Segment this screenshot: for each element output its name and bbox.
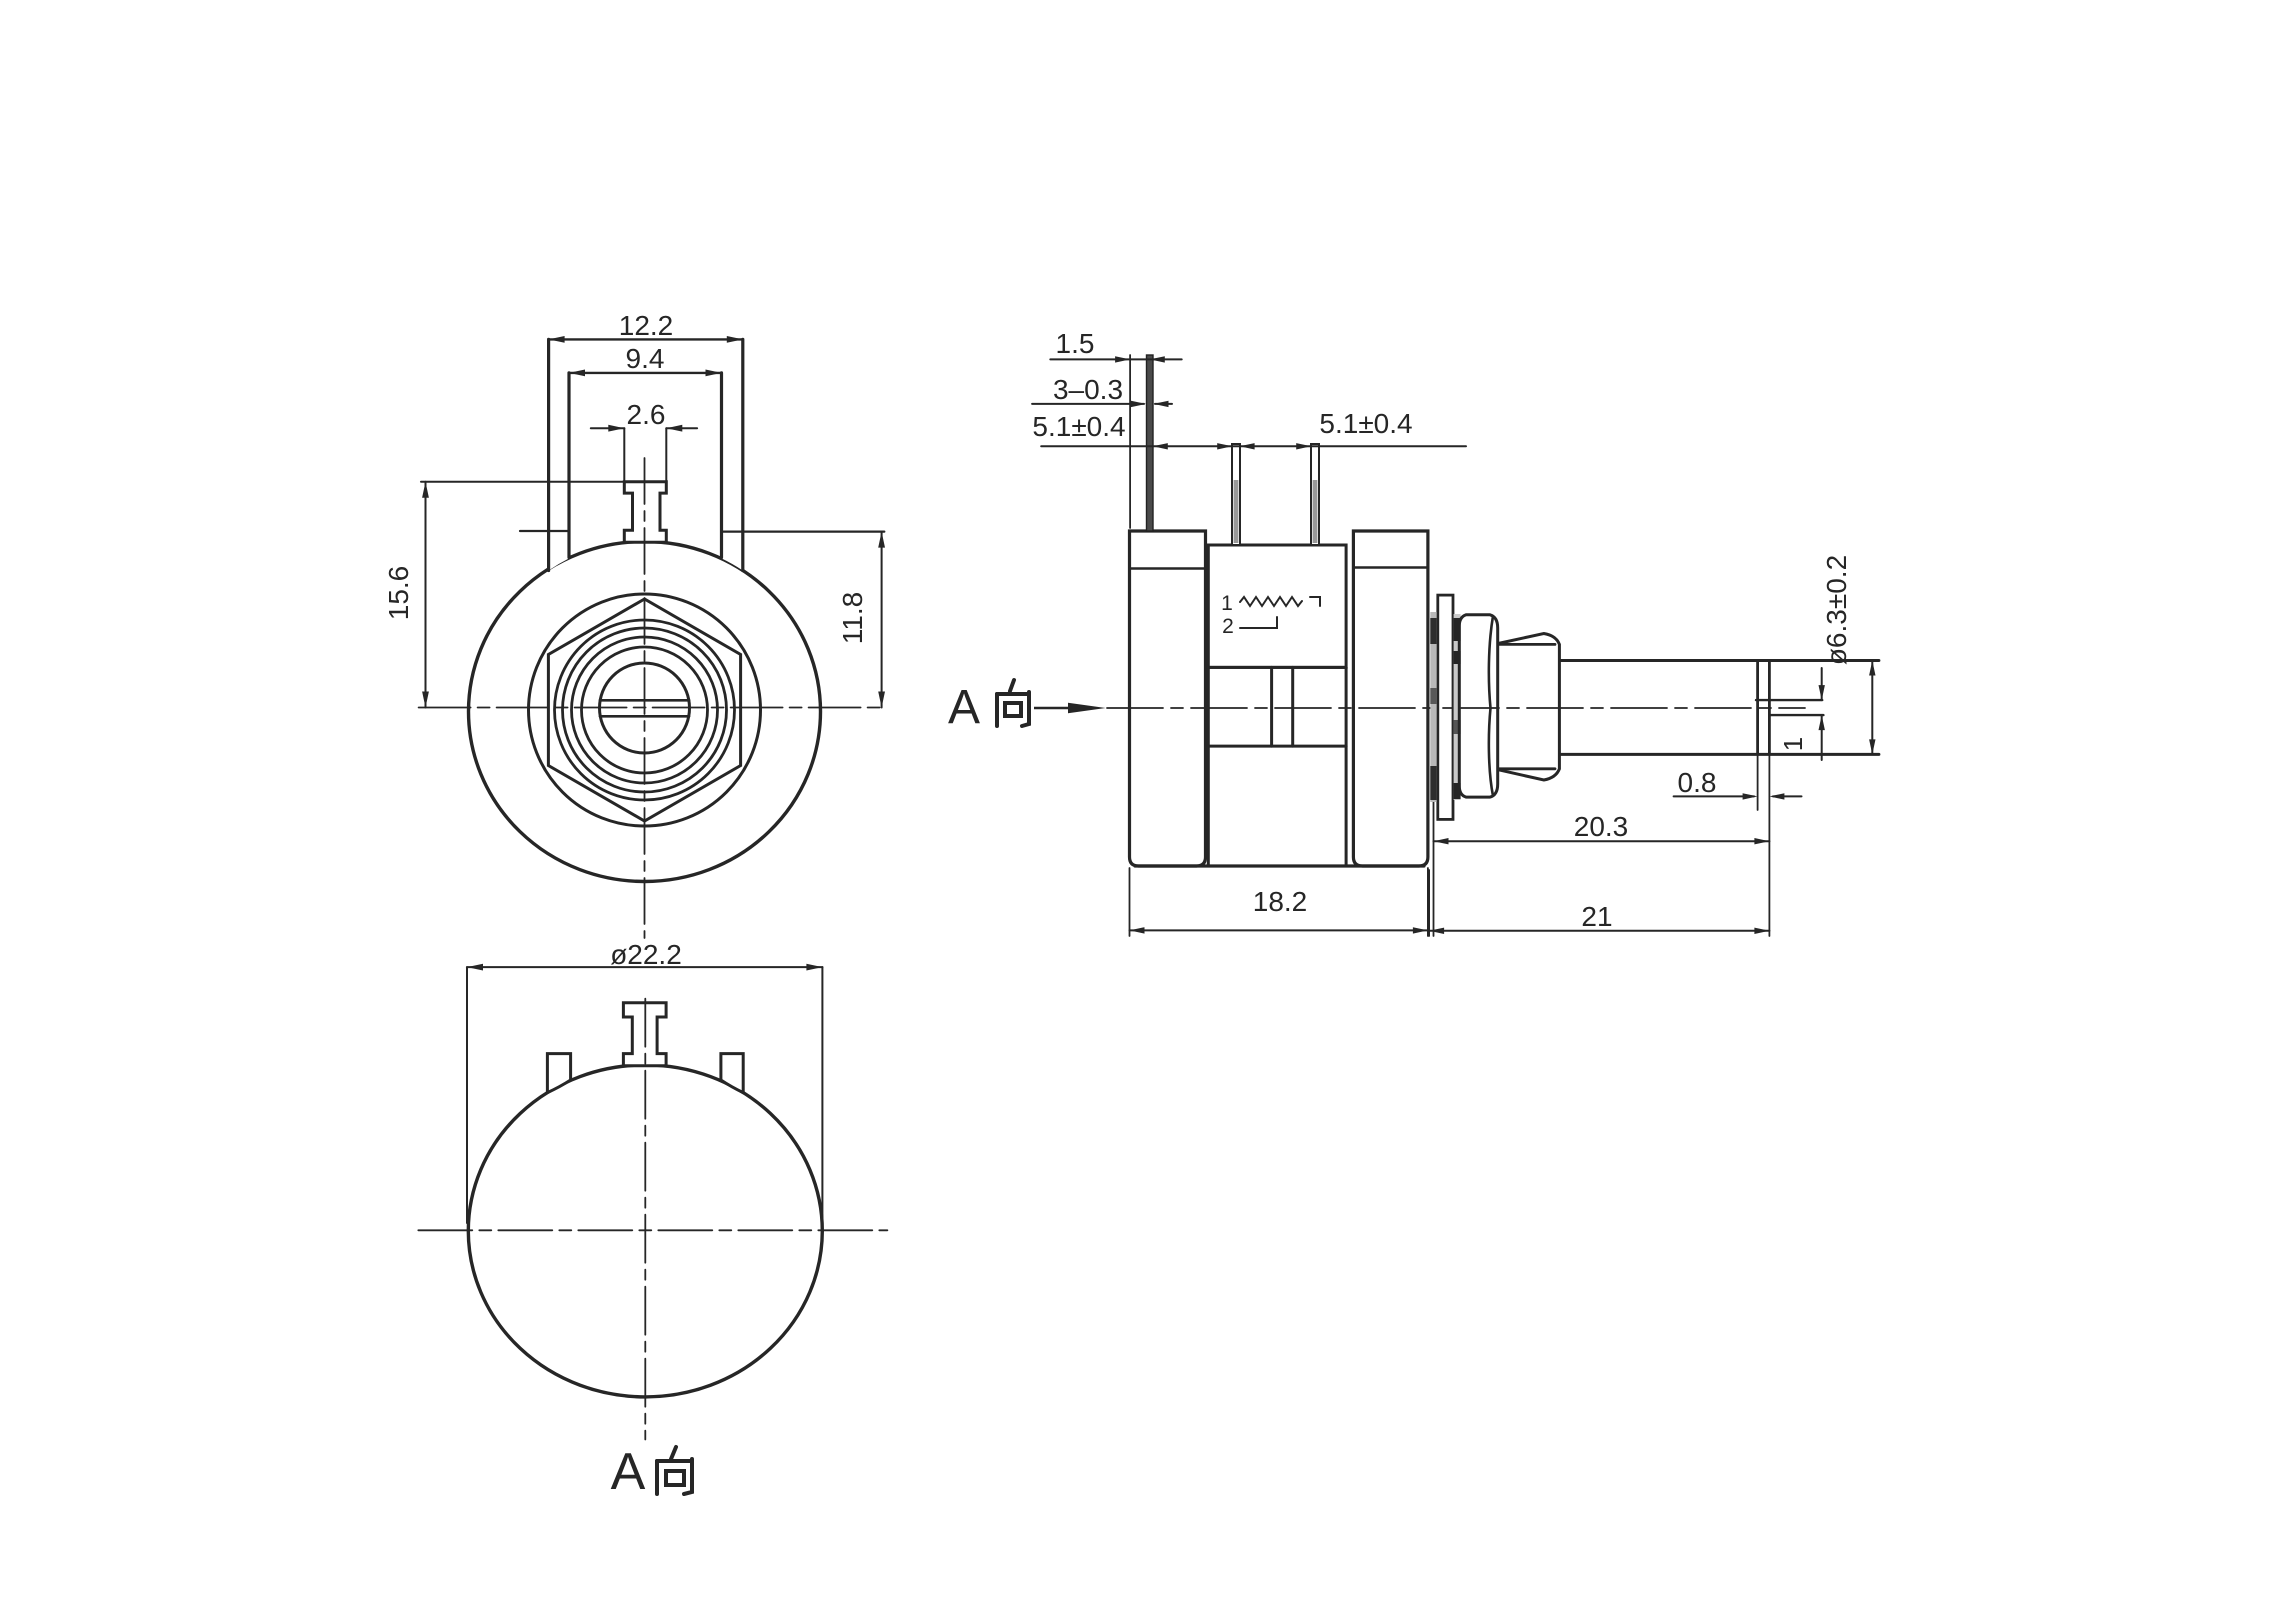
dimension 1.5 line <box>1050 358 1181 360</box>
internal schematic: terminal 3 hook <box>1310 597 1320 606</box>
resistive element housing (upper middle box) <box>1208 545 1346 667</box>
svg-text:ø22.2: ø22.2 <box>610 939 682 970</box>
hex nut facet curve lower <box>1489 708 1493 796</box>
bracket shoulder line left <box>520 530 569 532</box>
flat washer plate <box>1438 595 1453 819</box>
hex nut (side view) <box>1459 615 1497 797</box>
svg-text:0.8: 0.8 <box>1678 767 1717 798</box>
rear view right anti-rotation tab <box>721 1054 743 1093</box>
rear view horizontal centerline <box>418 1229 887 1231</box>
bracket shoulder / 11.8 extension line right <box>722 530 885 532</box>
shaft top line (with phi6.3 extension) <box>1560 659 1879 662</box>
rear view left anti-rotation tab <box>547 1054 570 1093</box>
mounting bracket left leg (white fill occludes circle) <box>549 339 569 570</box>
shaft groove line / 0.8 start <box>1756 661 1759 755</box>
svg-text:2: 2 <box>1222 615 1234 638</box>
solder terminal (front view I-beam) <box>624 482 666 543</box>
svg-text:A: A <box>611 1443 646 1501</box>
thread/chamfer circle r73 <box>572 637 718 783</box>
dimension 2.6 line + outside arrows <box>591 427 625 429</box>
dimension 15.6 extension line (terminal top) <box>421 481 624 483</box>
svg-text:9.4: 9.4 <box>626 343 665 374</box>
svg-text:1: 1 <box>1221 592 1233 615</box>
pin 1 (rear solder lug, side view) <box>1147 355 1154 531</box>
svg-text:15.6: 15.6 <box>383 566 414 621</box>
front view bushing boss circle <box>529 594 761 826</box>
dimension 21 extension line (plate face) <box>1428 870 1430 936</box>
wiper column right line <box>1291 667 1294 746</box>
dimension 2.6 extension lines <box>623 428 625 481</box>
horizontal centerline of front view <box>419 707 884 709</box>
svg-text:3–0.3: 3–0.3 <box>1053 374 1123 405</box>
dimension phi22.2 line <box>467 966 822 968</box>
20.3 extension line (panel face) <box>1433 620 1435 936</box>
wiper band upper line <box>1208 666 1346 669</box>
dimension 11.8 line <box>881 532 883 708</box>
dimension 0.8 line <box>1674 795 1754 797</box>
shaft slot lower line <box>600 715 689 718</box>
svg-text:12.2: 12.2 <box>619 310 674 341</box>
view label xiang glyph (side, drawn) <box>997 680 1029 726</box>
body bottom line <box>1135 864 1424 867</box>
rear view body circle <box>468 1065 822 1397</box>
svg-text:11.8: 11.8 <box>837 592 868 644</box>
svg-text:2.6: 2.6 <box>627 399 666 430</box>
rear view solder terminal I-beam <box>623 1003 666 1066</box>
shaft slot upper line <box>1756 699 1822 701</box>
svg-text:20.3: 20.3 <box>1574 811 1629 842</box>
thread/chamfer circle r63 <box>582 647 708 773</box>
bushing chamfer line bottom <box>1498 767 1555 770</box>
dimension 21 line <box>1429 930 1769 932</box>
middle section side edges <box>1207 667 1210 866</box>
svg-text:21: 21 <box>1581 901 1612 932</box>
dimension 5.1 double line <box>1041 445 1466 447</box>
internal schematic: resistor zigzag <box>1240 597 1302 606</box>
rear view vertical centerline <box>644 999 646 1440</box>
svg-text:1: 1 <box>1778 737 1808 751</box>
pin 3 (side view) <box>1311 444 1319 545</box>
dimension 3-0.3 line <box>1032 403 1144 405</box>
dimension phi22.2 extension lines <box>466 967 468 1223</box>
thread/chamfer circle r90 <box>555 620 735 800</box>
shaft bottom line (with phi6.3 extension) <box>1560 753 1879 756</box>
internal schematic: wiper arm <box>1240 617 1277 628</box>
bushing chamfer line top <box>1498 643 1555 646</box>
front plate step line <box>1353 566 1428 569</box>
front mounting plate (right) <box>1353 531 1428 866</box>
svg-text:5.1±0.4: 5.1±0.4 <box>1032 411 1125 442</box>
dimension 9.4 (bracket inner width) <box>569 372 722 374</box>
shaft end face <box>1768 661 1771 755</box>
view label xiang glyph (bottom, drawn) <box>657 1447 692 1494</box>
pin 2 (side view) <box>1232 444 1240 545</box>
dimension 20.3 line <box>1434 840 1770 842</box>
spring washer strip <box>1454 614 1461 800</box>
hex nut facet curve upper <box>1489 616 1493 708</box>
svg-text:5.1±0.4: 5.1±0.4 <box>1319 408 1412 439</box>
rear cover cap (left) <box>1130 531 1206 866</box>
hex nut hexagon <box>548 599 740 821</box>
svg-text:A: A <box>948 681 980 734</box>
vertical centerline of front view <box>644 458 646 938</box>
body left edge extension line <box>1129 355 1131 528</box>
mounting bracket right leg <box>722 339 743 570</box>
shaft slot lower line <box>1770 714 1823 716</box>
threaded bushing <box>1498 634 1559 781</box>
dimension 15.6 line <box>425 482 427 708</box>
shaft slot upper line <box>600 699 689 702</box>
front view outer body circle <box>469 542 821 882</box>
A-direction arrow <box>1034 703 1106 713</box>
wiper band lower line <box>1208 745 1346 748</box>
wiper column left line <box>1270 667 1273 746</box>
shaft end circle <box>600 663 690 753</box>
left lock washer strip <box>1430 612 1436 802</box>
svg-text:18.2: 18.2 <box>1253 886 1308 917</box>
dimension 12.2 (bracket outer width, line doubles as bracket top) <box>549 338 743 340</box>
dimension phi6.3 line <box>1871 661 1873 755</box>
side view horizontal centerline <box>1107 707 1805 709</box>
svg-text:1.5: 1.5 <box>1056 328 1095 359</box>
thread/chamfer circle r82 <box>563 628 727 792</box>
svg-text:ø6.3±0.2: ø6.3±0.2 <box>1821 555 1852 665</box>
dimension 18.2 extension lines <box>1129 868 1131 936</box>
rear cover step line <box>1130 567 1206 570</box>
dimension 18.2 line <box>1130 929 1428 931</box>
dimension 1 (slot) line <box>1821 668 1823 700</box>
